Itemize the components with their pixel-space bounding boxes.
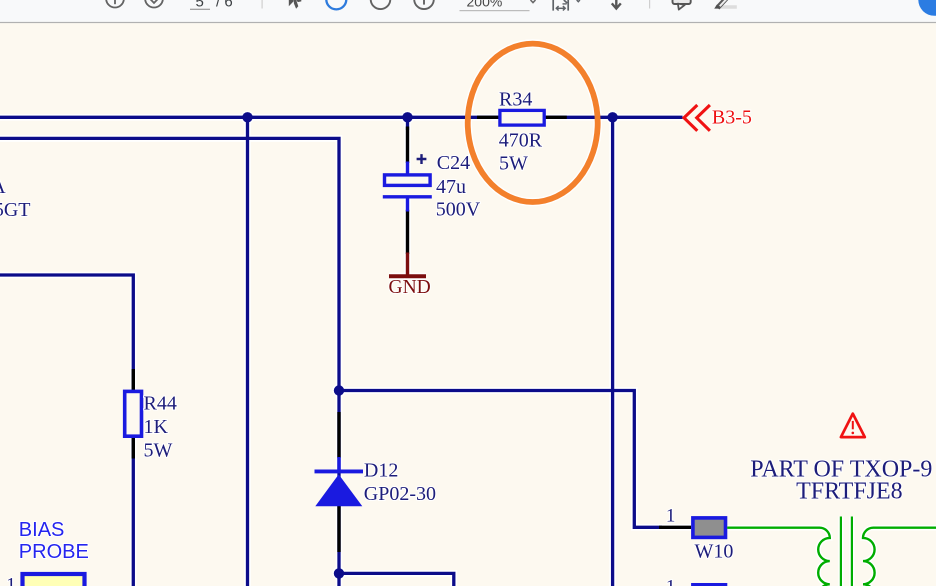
ground GND xyxy=(389,253,431,299)
toolbar separator 2 xyxy=(649,0,650,9)
wire R44 branch xyxy=(0,275,133,586)
node junction at (339,573) xyxy=(334,568,344,578)
toolbar comment icon xyxy=(673,0,691,10)
note BIAS PROBE xyxy=(19,519,89,563)
svg-text:500V: 500V xyxy=(436,199,481,221)
svg-text:5W: 5W xyxy=(499,152,528,174)
transformer right winding xyxy=(863,528,936,586)
diode D12 xyxy=(315,412,437,552)
transformer core xyxy=(841,517,852,586)
off-page connector B3-5 xyxy=(684,105,752,131)
toolbar page number field xyxy=(190,0,233,11)
resistor R34 xyxy=(477,88,567,174)
svg-text:1: 1 xyxy=(666,506,676,527)
svg-text:GP02-30: GP02-30 xyxy=(364,483,436,505)
wire main horizontal net top xyxy=(0,116,683,119)
svg-text:GND: GND xyxy=(389,277,431,298)
toolbar select tool icon xyxy=(289,0,302,9)
node junction at (339,390) xyxy=(334,385,344,395)
connector W10 pin 1 xyxy=(659,506,691,528)
wire second horizontal net to D12 branch xyxy=(0,138,339,586)
bias probe connector (partial) xyxy=(23,574,85,586)
toolbar avatar button xyxy=(918,0,936,16)
connector below W10 (partial) pin 1 xyxy=(666,576,676,586)
resistor R44 xyxy=(125,369,177,462)
svg-text:C24: C24 xyxy=(437,152,470,174)
svg-text:W10: W10 xyxy=(695,541,734,563)
svg-text:BIAS: BIAS xyxy=(19,519,65,541)
wire C24 branch xyxy=(406,117,409,130)
transformer part of TXOP (left winding) xyxy=(727,528,830,586)
svg-text:1: 1 xyxy=(6,575,16,586)
svg-text:47u: 47u xyxy=(436,176,466,198)
toolbar zoom in button xyxy=(414,0,434,9)
toolbar fit width icon xyxy=(553,0,580,11)
svg-text:B3-5: B3-5 xyxy=(712,107,752,129)
wire vertical at x=613 xyxy=(611,117,614,586)
toolbar prev page button xyxy=(106,0,124,8)
svg-text:470R: 470R xyxy=(499,129,543,151)
annotation highlight ellipse xyxy=(468,44,598,202)
toolbar next page button xyxy=(145,0,163,8)
connector below W10 (partial) xyxy=(693,585,726,586)
svg-text:TFRTFJE8: TFRTFJE8 xyxy=(796,479,903,505)
svg-text:200%: 200% xyxy=(467,0,503,10)
svg-text:1K: 1K xyxy=(144,416,169,438)
svg-text:5W: 5W xyxy=(144,440,173,462)
wire bottom branch xyxy=(339,573,454,586)
node junction at (613,117) xyxy=(607,112,617,122)
toolbar separator xyxy=(262,0,263,9)
toolbar sign icon xyxy=(714,0,737,9)
svg-text:R44: R44 xyxy=(144,393,177,415)
node junction at (407,117) xyxy=(402,112,412,122)
node junction at (247,117) xyxy=(242,112,252,122)
capacitor C24 xyxy=(383,127,481,255)
toolbar hand tool button (active) xyxy=(326,0,346,9)
svg-text:R34: R34 xyxy=(499,88,532,110)
connector W10 xyxy=(693,518,733,563)
toolbar download icon xyxy=(612,0,621,9)
svg-text:5GT: 5GT xyxy=(0,199,30,221)
svg-text:D12: D12 xyxy=(364,459,398,481)
wire to W10 xyxy=(339,391,662,528)
toolbar zoom level field xyxy=(460,0,536,11)
toolbar zoom out button xyxy=(371,0,391,9)
warning symbol xyxy=(841,414,865,438)
wire vertical at x=247 xyxy=(246,117,249,586)
svg-text:A: A xyxy=(0,176,6,198)
svg-text:/ 6: / 6 xyxy=(216,0,233,11)
svg-text:PROBE: PROBE xyxy=(19,541,89,563)
svg-text:1: 1 xyxy=(666,576,676,586)
toolbar xyxy=(0,0,936,23)
